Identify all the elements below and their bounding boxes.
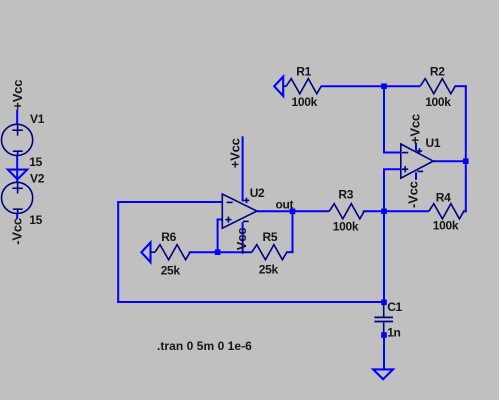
svg-text:-Vcc: -Vcc bbox=[405, 181, 420, 208]
svg-text:V1: V1 bbox=[30, 112, 45, 126]
svg-text:15: 15 bbox=[29, 213, 42, 227]
svg-text:R6: R6 bbox=[161, 230, 176, 244]
svg-text:R4: R4 bbox=[436, 190, 451, 204]
svg-text:C1: C1 bbox=[387, 300, 402, 314]
svg-text:15: 15 bbox=[29, 155, 42, 169]
svg-text:+Vcc: +Vcc bbox=[10, 80, 25, 110]
svg-text:U1: U1 bbox=[426, 136, 441, 150]
svg-text:.tran 0 5m 0 1e-6: .tran 0 5m 0 1e-6 bbox=[157, 339, 252, 353]
svg-text:25k: 25k bbox=[161, 263, 181, 277]
svg-text:100k: 100k bbox=[292, 95, 318, 109]
svg-text:100k: 100k bbox=[433, 219, 459, 233]
svg-text:+Vcc: +Vcc bbox=[407, 114, 422, 144]
svg-text:100k: 100k bbox=[425, 95, 451, 109]
svg-text:R1: R1 bbox=[296, 65, 311, 79]
svg-text:R3: R3 bbox=[338, 187, 353, 201]
svg-text:+Vcc: +Vcc bbox=[227, 138, 242, 168]
svg-text:R5: R5 bbox=[263, 230, 278, 244]
svg-text:100k: 100k bbox=[333, 220, 359, 234]
svg-text:1n: 1n bbox=[387, 325, 400, 339]
svg-text:25k: 25k bbox=[259, 263, 279, 277]
svg-text:R2: R2 bbox=[430, 65, 445, 79]
svg-text:out: out bbox=[276, 197, 294, 211]
svg-text:V2: V2 bbox=[30, 171, 45, 185]
svg-text:-Vcc: -Vcc bbox=[9, 218, 24, 245]
svg-text:U2: U2 bbox=[250, 186, 265, 200]
svg-text:-Vcc: -Vcc bbox=[234, 228, 249, 255]
